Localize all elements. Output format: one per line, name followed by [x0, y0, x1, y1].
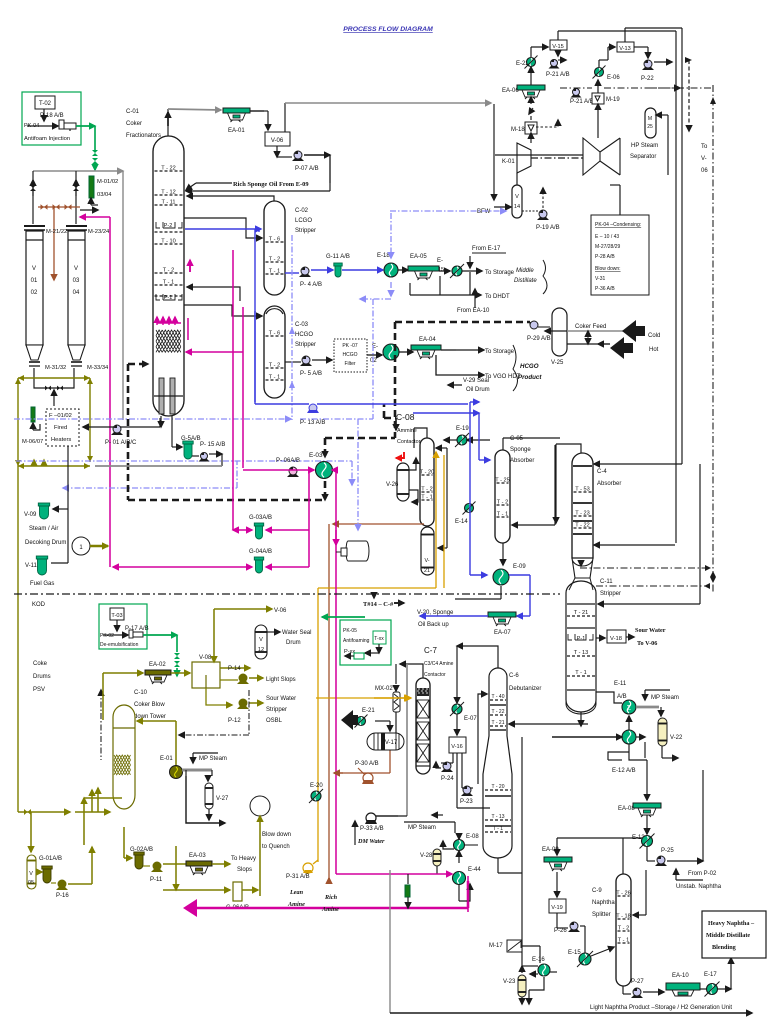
packing	[156, 330, 181, 352]
wire periwinkle dashdot right	[712, 85, 714, 592]
furnace F-01/02 fired heaters	[46, 409, 79, 446]
svg-text:LCGO: LCGO	[295, 218, 312, 224]
pump P-13 A/B blue	[309, 404, 317, 412]
wire C-01 overhead	[167, 109, 169, 136]
svg-text:down Tower: down Tower	[134, 714, 166, 720]
svg-text:T - 2: T - 2	[163, 268, 174, 274]
svg-text:V-31: V-31	[595, 276, 606, 282]
svg-text:M-18: M-18	[511, 127, 525, 133]
svg-text:EA-05: EA-05	[410, 254, 427, 260]
svg-text:M-17: M-17	[489, 943, 503, 949]
wire blue LCGO line	[185, 228, 261, 230]
svg-text:V-25: V-25	[551, 360, 564, 366]
wire periwinkle lower row	[16, 460, 352, 462]
svg-text:P-19 A/B: P-19 A/B	[536, 225, 560, 231]
svg-text:E-18: E-18	[377, 253, 390, 259]
svg-text:HCGO: HCGO	[520, 363, 539, 370]
pump P-5 A/B	[285, 361, 301, 363]
svg-text:M-01/02: M-01/02	[97, 179, 118, 185]
svg-text:V-09: V-09	[24, 512, 37, 518]
svg-text:P- 15 A/B: P- 15 A/B	[200, 442, 225, 448]
svg-text:V-17: V-17	[385, 740, 398, 746]
wire overhead to V-14	[493, 104, 495, 200]
svg-text:E-44: E-44	[468, 867, 481, 873]
svg-text:Stripper: Stripper	[266, 707, 287, 713]
svg-text:E-17: E-17	[704, 972, 717, 978]
svg-text:P- 06A/B: P- 06A/B	[276, 458, 300, 464]
svg-text:Naphtha: Naphtha	[592, 900, 615, 906]
svg-text:P-36 A/B: P-36 A/B	[595, 286, 615, 292]
blower motor	[346, 541, 369, 561]
svg-text:Rich: Rich	[324, 894, 338, 901]
wire sponge oil to C-01	[329, 155, 331, 191]
wire C-7 bottoms	[432, 814, 443, 816]
svg-text:T - 20: T - 20	[492, 784, 505, 790]
svg-text:V: V	[74, 266, 78, 272]
svg-text:Heaters: Heaters	[51, 437, 71, 443]
svg-text:PK-04 –Condensing:: PK-04 –Condensing:	[595, 222, 641, 228]
svg-text:BFW: BFW	[477, 209, 491, 215]
internals baffles	[159, 378, 164, 414]
svg-text:P-31 A/B: P-31 A/B	[286, 874, 310, 880]
svg-text:Hot: Hot	[649, 347, 659, 353]
wire right risers	[557, 31, 559, 40]
svg-text:Decoking Drum: Decoking Drum	[25, 540, 66, 546]
svg-text:Sponge: Sponge	[510, 447, 531, 453]
drum V-05	[27, 855, 36, 889]
svg-text:P-26: P-26	[554, 928, 567, 934]
pump P-4 A/B	[285, 272, 299, 274]
svg-text:To V-06: To V-06	[637, 640, 657, 647]
svg-text:Antifoaming: Antifoaming	[343, 638, 370, 644]
svg-text:To: To	[701, 144, 708, 150]
svg-text:Sour Water: Sour Water	[635, 627, 666, 634]
svg-text:V-15: V-15	[552, 44, 564, 50]
pump P-29 A/B	[530, 321, 538, 329]
svg-text:Coke: Coke	[33, 661, 48, 667]
drum V-21	[421, 527, 434, 575]
svg-text:Blow down: Blow down	[262, 832, 291, 838]
wire V-27 bottoms	[208, 809, 210, 820]
svg-text:Absorber: Absorber	[597, 481, 621, 487]
wire magenta rich amine header	[183, 899, 197, 917]
svg-text:V-29 Seal: V-29 Seal	[463, 378, 489, 384]
wire C-9 ovhd	[622, 838, 624, 874]
drum V-08	[192, 662, 220, 688]
svg-text:P-24: P-24	[441, 776, 454, 782]
svg-text:E-01: E-01	[160, 756, 173, 762]
svg-text:P-23: P-23	[460, 799, 473, 805]
wire E-11/E-12 connect	[628, 716, 630, 730]
svg-text:03: 03	[73, 278, 80, 284]
pump P-21 A/B	[549, 66, 560, 69]
wire C-10 bottoms to G-02	[123, 827, 125, 858]
svg-text:T - 6: T - 6	[269, 331, 280, 337]
wire C-4 lean oil feed	[594, 463, 682, 465]
svg-text:T - 13: T - 13	[492, 814, 505, 820]
svg-text:EA-01: EA-01	[228, 128, 245, 134]
drum V-27	[207, 776, 209, 781]
svg-text:V-16: V-16	[451, 744, 463, 750]
wire drum overhead	[33, 170, 123, 172]
svg-text:P-07 A/B: P-07 A/B	[295, 166, 319, 172]
svg-text:Antifoam Injection: Antifoam Injection	[24, 136, 70, 142]
svg-text:E-07: E-07	[464, 716, 477, 722]
svg-text:V-: V-	[424, 558, 429, 564]
svg-text:T - 1: T - 1	[269, 269, 280, 275]
wire to DHDT	[439, 276, 441, 295]
svg-text:EA-03: EA-03	[189, 853, 206, 859]
column C-7	[416, 678, 430, 774]
drum V-19	[556, 872, 558, 897]
svg-text:P-14: P-14	[228, 666, 241, 672]
wire light naphtha bottom	[389, 870, 391, 1013]
wire periwinkle vertical x358	[357, 419, 359, 530]
svg-text:T - 40: T - 40	[492, 694, 505, 700]
pump P-16	[51, 882, 56, 884]
svg-text:P-2: P-2	[164, 223, 172, 229]
relief valves	[32, 180, 34, 196]
svg-text:M-06/07: M-06/07	[22, 439, 43, 445]
exchanger E-12 A/B	[622, 730, 636, 744]
svg-text:OSBL: OSBL	[266, 718, 283, 724]
svg-text:From EA-10: From EA-10	[457, 308, 490, 314]
svg-text:C-02: C-02	[295, 208, 309, 214]
svg-text:M-21/22: M-21/22	[46, 229, 67, 235]
svg-text:V-26: V-26	[386, 482, 399, 488]
wire C-02 feed from C-01	[184, 218, 262, 238]
svg-text:E – 10 / 43: E – 10 / 43	[595, 234, 619, 240]
svg-text:P-12: P-12	[228, 718, 241, 724]
svg-text:T - 2: T - 2	[269, 257, 280, 263]
gold wires C-08	[435, 452, 437, 588]
wire C-03 feed	[184, 305, 262, 316]
svg-text:C-11: C-11	[600, 579, 613, 585]
svg-text:Middle: Middle	[516, 268, 534, 274]
circle instrument 1	[72, 537, 90, 555]
svg-text:Blending: Blending	[712, 944, 737, 951]
wire dashdot reboil	[580, 567, 707, 569]
svg-text:Stripper: Stripper	[295, 342, 316, 348]
package PK-04 antifoam box	[22, 92, 81, 145]
wire coker feed twin verticals	[675, 31, 677, 543]
svg-text:P-1: P-1	[164, 295, 172, 301]
svg-text:15: 15	[438, 267, 444, 273]
wire olive quench feed	[102, 673, 104, 720]
svg-text:Absorber: Absorber	[510, 458, 534, 464]
svg-text:Oil Drum: Oil Drum	[466, 387, 490, 393]
svg-text:Lean: Lean	[289, 889, 304, 896]
drum V-17	[375, 720, 390, 722]
drum V-14	[512, 185, 522, 218]
wire periwinkle to E-18	[390, 213, 392, 258]
svg-text:Steam / Air: Steam / Air	[29, 526, 58, 532]
wire C-08 side arrows	[436, 447, 447, 449]
svg-text:02: 02	[31, 290, 38, 296]
svg-text:04: 04	[73, 290, 80, 296]
svg-text:P- 13 A/B: P- 13 A/B	[300, 420, 325, 426]
column C-10	[113, 705, 135, 809]
wire magenta quench to drums	[80, 216, 110, 218]
svg-text:25: 25	[647, 124, 653, 130]
svg-text:E-20: E-20	[310, 783, 323, 789]
svg-text:T - 1: T - 1	[163, 280, 174, 286]
svg-text:T-03: T-03	[111, 613, 122, 619]
magenta stripping steam arrows	[156, 317, 158, 325]
drum V-12 water seal	[220, 667, 250, 669]
svg-text:Drums: Drums	[33, 674, 51, 680]
svg-text:E-19: E-19	[456, 426, 469, 432]
svg-text:Separator: Separator	[630, 154, 656, 160]
wire dashed to V-06	[688, 60, 690, 131]
svg-text:K-01: K-01	[502, 159, 515, 165]
drum V-11 fuel gas KOD	[36, 556, 47, 559]
svg-text:T-xx: T-xx	[374, 636, 384, 642]
svg-text:DM Water: DM Water	[357, 838, 385, 845]
svg-text:V-08: V-08	[199, 655, 212, 661]
svg-text:PSV: PSV	[33, 687, 45, 693]
pump P-22	[624, 28, 626, 42]
svg-text:To VGO HDT: To VGO HDT	[485, 374, 521, 380]
wire olive frame	[18, 377, 90, 379]
coke drum V-03/04	[66, 225, 87, 227]
svg-text:Amine: Amine	[321, 906, 339, 913]
svg-text:T - 6: T - 6	[269, 237, 280, 243]
svg-text:PK-05: PK-05	[343, 628, 357, 634]
wire magenta E-03 loop	[243, 469, 314, 471]
svg-text:P- 4 A/B: P- 4 A/B	[300, 282, 322, 288]
svg-text:E-11: E-11	[614, 681, 627, 687]
svg-text:EA-09: EA-09	[542, 847, 559, 853]
svg-text:P-1: P-1	[577, 636, 585, 642]
svg-text:C-4: C-4	[597, 469, 607, 475]
wire C-05 bottom feed	[554, 445, 556, 518]
svg-text:C-08: C-08	[396, 412, 415, 422]
svg-text:Splitter: Splitter	[592, 912, 611, 918]
svg-text:Amine: Amine	[287, 901, 305, 908]
wire dash-dot P-21 row	[560, 87, 592, 89]
svg-text:PROCESS FLOW DIAGRAM: PROCESS FLOW DIAGRAM	[343, 26, 433, 33]
svg-text:T - 22: T - 22	[161, 166, 176, 172]
svg-text:G-01A/B: G-01A/B	[39, 856, 62, 862]
drum V-06	[267, 111, 269, 130]
svg-text:V-28: V-28	[420, 853, 433, 859]
wire feed cold/hot	[567, 330, 625, 332]
svg-text:T - 2: T - 2	[269, 363, 280, 369]
svg-text:MP Steam: MP Steam	[199, 756, 227, 762]
package PK-07 HCGO filter	[334, 339, 367, 372]
svg-text:Cold: Cold	[648, 333, 660, 339]
svg-text:Coker Blow: Coker Blow	[134, 702, 165, 708]
drum V-16	[456, 714, 458, 735]
svg-text:PK -07: PK -07	[342, 343, 358, 349]
wire C-4 ovhd	[556, 444, 581, 453]
svg-text:Oil Back up: Oil Back up	[418, 622, 449, 628]
wire C-9 bottoms	[622, 986, 624, 994]
svg-text:Coker: Coker	[126, 121, 142, 127]
wire C-7 top connections	[400, 664, 423, 678]
svg-text:De-emulsification: De-emulsification	[100, 642, 139, 648]
wire dashdot P-12	[248, 690, 250, 735]
wire magenta E-44 loop	[336, 873, 452, 875]
svg-text:14: 14	[514, 204, 520, 210]
svg-text:C3/C4 Amine: C3/C4 Amine	[424, 661, 454, 667]
drum V-22	[660, 707, 662, 716]
svg-text:E-09: E-09	[513, 564, 526, 570]
pump P-12	[206, 688, 232, 705]
pump P-19 A/B	[537, 217, 549, 220]
svg-text:T - 2: T - 2	[618, 926, 629, 932]
svg-text:MP Steam: MP Steam	[408, 825, 436, 831]
drum V-26	[397, 463, 409, 501]
svg-text:Stripper: Stripper	[295, 228, 316, 234]
svg-text:P-25: P-25	[661, 848, 674, 854]
svg-text:E-: E-	[437, 258, 443, 264]
svg-text:V-27: V-27	[216, 796, 229, 802]
svg-text:Distillate: Distillate	[514, 278, 537, 284]
svg-text:01: 01	[31, 278, 38, 284]
svg-text:05: 05	[28, 880, 34, 886]
svg-text:EA-04: EA-04	[419, 337, 436, 343]
svg-text:HP Steam: HP Steam	[631, 143, 658, 149]
svg-text:Unstab. Naphtha: Unstab. Naphtha	[676, 884, 722, 890]
svg-text:V-06: V-06	[274, 608, 287, 614]
package PK-05 antifoaming	[340, 620, 391, 665]
svg-text:M-27/28/29: M-27/28/29	[595, 244, 621, 250]
svg-text:T-02: T-02	[39, 101, 52, 107]
svg-text:V-23: V-23	[503, 979, 516, 985]
svg-text:T - 22: T - 22	[492, 709, 505, 715]
svg-text:T - 18: T - 18	[616, 914, 631, 920]
svg-text:V-11: V-11	[25, 563, 38, 569]
svg-text:T - 1: T - 1	[497, 512, 508, 518]
svg-text:V: V	[259, 637, 263, 643]
drum V-09 steam air decoking	[38, 503, 49, 506]
pump P-15	[192, 455, 199, 457]
strainer G-06 A/B	[175, 846, 177, 890]
svg-text:21: 21	[424, 568, 430, 574]
svg-text:MX-02: MX-02	[375, 686, 393, 692]
svg-text:Filter: Filter	[344, 361, 355, 367]
wire E-16 loop	[550, 971, 557, 973]
drum V-15	[550, 40, 567, 50]
wire brown lean amine into C-08	[333, 523, 424, 525]
svg-text:C-7: C-7	[424, 646, 437, 655]
svg-text:E-14: E-14	[455, 519, 468, 525]
svg-text:T - 53: T - 53	[575, 487, 590, 493]
svg-text:To Heavy: To Heavy	[231, 856, 256, 862]
wire green PK-05 out	[322, 616, 365, 618]
svg-text:EA-10: EA-10	[672, 973, 689, 979]
svg-text:E-12 A/B: E-12 A/B	[612, 768, 636, 774]
column C-6 top	[483, 668, 512, 858]
wire heavy dash into C-08	[384, 417, 396, 420]
svg-text:Drum: Drum	[286, 640, 301, 646]
svg-text:T - 13: T - 13	[574, 650, 589, 656]
svg-text:C-03: C-03	[295, 322, 309, 328]
svg-text:A/B: A/B	[617, 694, 627, 700]
svg-text:P-30 A/B: P-30 A/B	[355, 761, 379, 767]
pump P-11	[143, 865, 150, 867]
svg-text:T - 20: T - 20	[420, 470, 435, 476]
wire right riser x522	[521, 737, 523, 966]
svg-text:T - 23: T - 23	[575, 511, 590, 517]
svg-text:C-10: C-10	[134, 690, 148, 696]
svg-text:T - 10: T - 10	[161, 239, 176, 245]
svg-text:To Storage: To Storage	[485, 349, 515, 355]
svg-text:P-16: P-16	[56, 893, 69, 899]
wire V-17 to P-30	[389, 750, 391, 773]
svg-text:M-33/34: M-33/34	[87, 365, 109, 371]
wire C-08 ovhd	[414, 428, 427, 438]
turbine second stage wire	[597, 118, 599, 138]
svg-text:V: V	[29, 871, 33, 877]
svg-text:Sour Water: Sour Water	[266, 696, 296, 702]
svg-text:V-: V-	[701, 156, 707, 162]
svg-text:Light Naphtha Product –Storage: Light Naphtha Product –Storage / H2 Gene…	[590, 1005, 732, 1011]
pump P-24	[452, 753, 454, 763]
svg-text:V-19: V-19	[551, 905, 563, 911]
svg-text:E-08: E-08	[466, 834, 479, 840]
drum V-18	[596, 637, 605, 639]
wire magenta verticals	[232, 250, 234, 530]
drum V-13	[617, 42, 634, 52]
svg-text:T - 11: T - 11	[161, 200, 175, 206]
svg-text:P-22: P-22	[641, 76, 654, 82]
svg-text:Contactor: Contactor	[397, 439, 421, 445]
svg-text:T - 1: T - 1	[269, 375, 280, 381]
svg-text:Heavy Naphtha –: Heavy Naphtha –	[708, 920, 755, 927]
svg-text:To Storage: To Storage	[485, 270, 515, 276]
svg-text:T - 1: T - 1	[493, 826, 503, 832]
valve M-01/02 03/04	[89, 176, 94, 198]
svg-text:12: 12	[258, 647, 264, 653]
svg-text:P-27: P-27	[631, 979, 644, 985]
instrument circle quench	[250, 796, 270, 816]
svg-text:HCGO: HCGO	[295, 332, 313, 338]
svg-text:To DHDT: To DHDT	[485, 294, 510, 300]
pump P-27	[631, 995, 643, 998]
wire C-11 feed	[598, 603, 700, 605]
exchanger E- (small)	[452, 266, 462, 276]
wire to VGO HDT	[436, 355, 484, 375]
svg-text:03/04: 03/04	[97, 192, 112, 198]
wire C-03 ovhd	[187, 287, 240, 301]
svg-text:V-06: V-06	[271, 138, 284, 144]
boundary dashdot line	[14, 593, 560, 595]
svg-text:Fuel Gas: Fuel Gas	[30, 581, 54, 587]
wire C-05 to E-09	[502, 543, 504, 565]
svg-text:E-21: E-21	[362, 708, 375, 714]
svg-text:PK-04: PK-04	[24, 123, 39, 129]
svg-text:E-15: E-15	[568, 950, 581, 956]
svg-text:KOD: KOD	[32, 602, 46, 608]
coke drum V-01/02	[24, 225, 45, 227]
svg-text:C-05: C-05	[510, 436, 524, 442]
wire drum bottoms manifold	[34, 368, 74, 388]
brown decoke valves	[38, 206, 80, 208]
svg-text:P-29 A/B: P-29 A/B	[527, 336, 551, 342]
svg-text:Blow down:: Blow down:	[595, 266, 621, 272]
pump P-31 A/B	[303, 863, 313, 873]
valve M-18	[530, 116, 532, 120]
svg-text:E-06: E-06	[607, 75, 620, 81]
svg-text:G-03A/B: G-03A/B	[249, 515, 272, 521]
wire C-11 to E-11	[596, 692, 622, 703]
pump P-21 A/B spare	[571, 95, 582, 98]
svg-text:T - 1: T - 1	[421, 495, 432, 501]
wire P-26 riser	[580, 925, 585, 927]
